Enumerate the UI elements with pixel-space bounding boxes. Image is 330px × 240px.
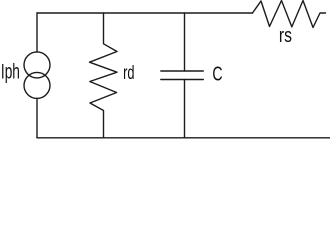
capacitor C bottom lead <box>184 80 186 138</box>
svg-text:rd: rd <box>123 62 134 84</box>
capacitor C top plate <box>161 70 204 72</box>
current source Iph circle upper <box>24 52 50 78</box>
svg-text:C: C <box>212 64 222 86</box>
resistor rd <box>90 13 118 138</box>
current source Iph circle lower <box>24 72 50 98</box>
svg-text:rs: rs <box>279 24 292 47</box>
wire bottom horizontal <box>37 137 330 139</box>
wire left vertical (top lead of source) <box>36 13 38 52</box>
wire bottom lead of source <box>36 98 38 137</box>
capacitor C top lead <box>184 13 186 71</box>
resistor rs <box>253 1 326 28</box>
wire top horizontal <box>37 12 253 14</box>
svg-text:Iph: Iph <box>1 60 20 84</box>
capacitor C bottom plate <box>161 79 204 81</box>
